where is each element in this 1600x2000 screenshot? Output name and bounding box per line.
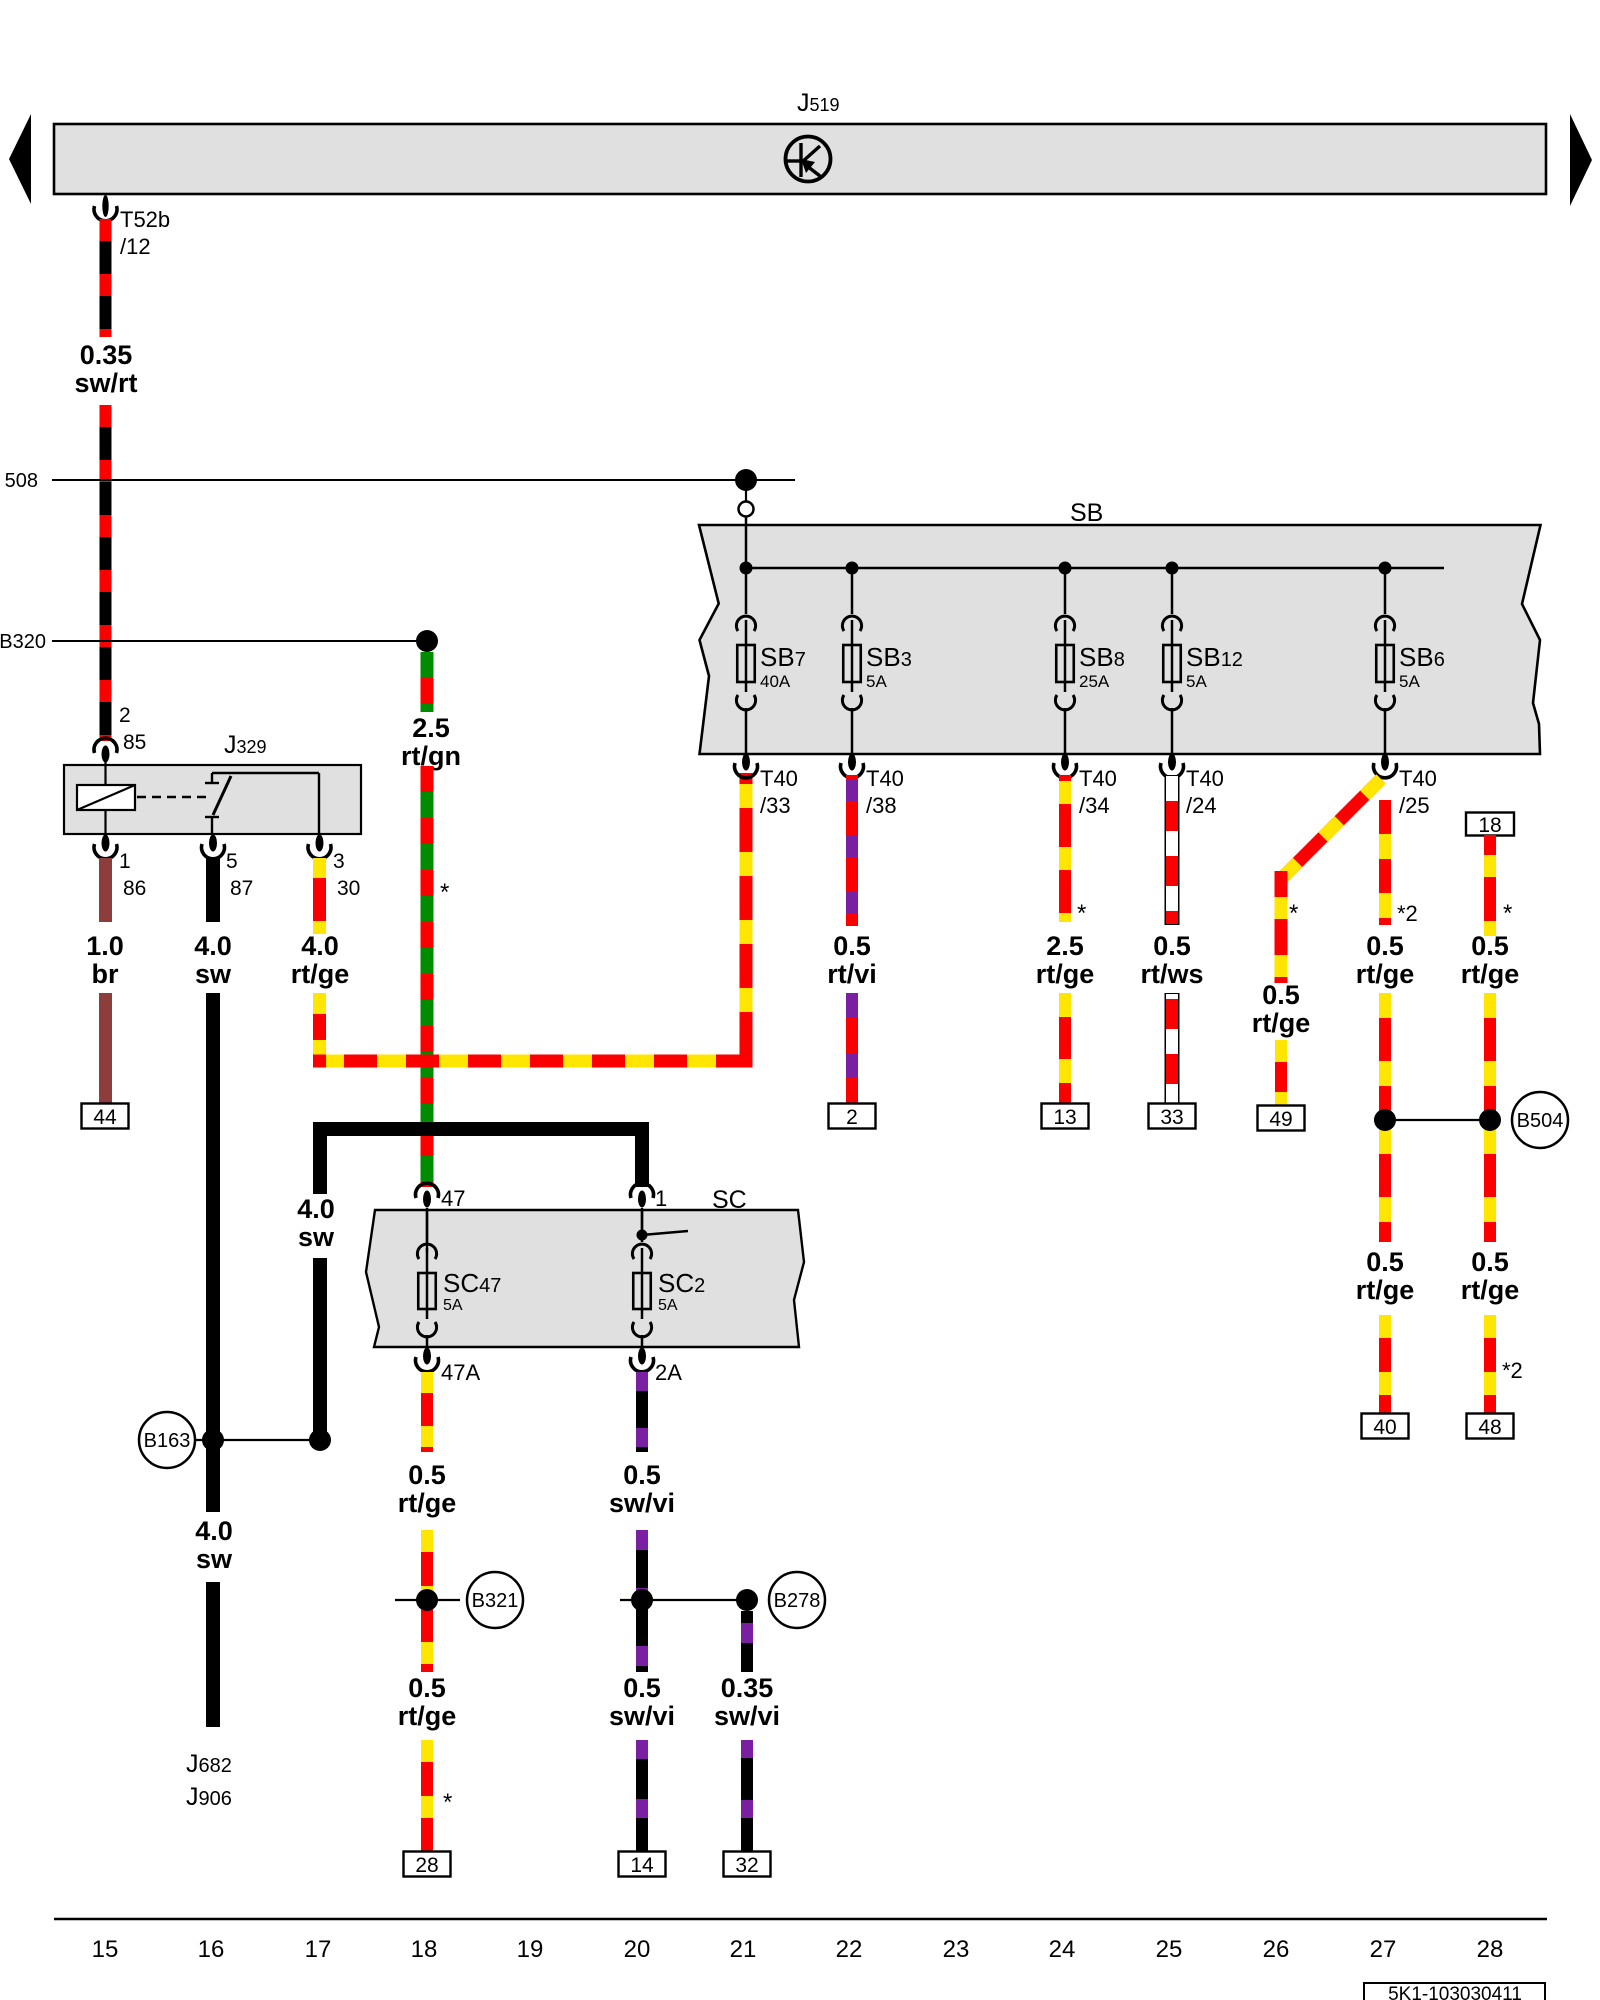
- svg-text:/34: /34: [1079, 793, 1110, 818]
- junction dot B320 to rt/gn wire: [416, 630, 438, 652]
- wire 2.5 rt/ge T40/34 upper: [1059, 775, 1071, 922]
- wire rt/ge corner at T40/33 column: [740, 1055, 753, 1068]
- svg-text:85: 85: [123, 731, 146, 754]
- wire 0.5 rt/vi upper segment: [846, 775, 858, 926]
- wire rt/ge horizontal run to T40/33: [313, 1055, 753, 1068]
- svg-text:SB: SB: [1070, 499, 1103, 527]
- svg-text:508: 508: [5, 470, 38, 492]
- connector SC pin 47: [416, 1183, 439, 1198]
- SB feed link from 508 node: [745, 480, 747, 501]
- fuse SB12 5A: [1171, 568, 1174, 614]
- svg-text:*: *: [1503, 900, 1512, 927]
- svg-text:5: 5: [226, 850, 238, 873]
- wire 4.0 rt/ge from pin 30 upper: [313, 858, 326, 934]
- SB bus junction dot x=746: [740, 562, 753, 575]
- svg-text:*: *: [1289, 900, 1298, 927]
- svg-text:0.35: 0.35: [721, 1673, 774, 1703]
- svg-text:0.35: 0.35: [80, 340, 133, 370]
- fuse SC2 5A: [641, 1209, 644, 1242]
- svg-text:2.5: 2.5: [1046, 931, 1084, 961]
- connector SC pin 47A: [423, 1348, 431, 1365]
- svg-text:T52b: T52b: [120, 207, 170, 232]
- wire rt/ge corner at relay column: [313, 1055, 326, 1068]
- svg-text:B163: B163: [144, 1430, 191, 1452]
- svg-text:sw/vi: sw/vi: [609, 1701, 675, 1731]
- wire 0.5 rt/ge to box 28: [421, 1740, 433, 1852]
- junction dot B321: [416, 1589, 438, 1611]
- SB bus junction dot x=1065: [1059, 562, 1072, 575]
- terminal box 2: [829, 1104, 876, 1129]
- SB internal bus line: [746, 567, 1444, 570]
- wire 0.5 rt/ge diagonal from T40/25: [1281, 779, 1381, 879]
- relay coil: [77, 785, 135, 810]
- svg-text:25A: 25A: [1079, 672, 1110, 691]
- wire 2.5 rt/ge T40/34 lower: [1059, 993, 1071, 1104]
- svg-text:J329: J329: [224, 731, 267, 759]
- svg-text:rt/ge: rt/ge: [1356, 1275, 1415, 1305]
- svg-text:47A: 47A: [441, 1360, 480, 1385]
- wire 0.5 rt/ge col27 to box 40: [1379, 1315, 1391, 1414]
- svg-text:*: *: [440, 879, 449, 906]
- svg-text:49: 49: [1269, 1108, 1292, 1131]
- svg-text:4.0: 4.0: [301, 931, 339, 961]
- terminal box 14: [619, 1852, 666, 1877]
- svg-text:0.5: 0.5: [408, 1673, 446, 1703]
- svg-text:15: 15: [92, 1936, 119, 1963]
- svg-text:sw/rt: sw/rt: [74, 368, 137, 398]
- relay switch contact: [211, 773, 213, 783]
- junction dot B278 right: [736, 1589, 758, 1611]
- junction dot B278 left: [631, 1589, 653, 1611]
- svg-text:*2: *2: [1397, 901, 1418, 926]
- svg-text:rt/ge: rt/ge: [1461, 1275, 1520, 1305]
- svg-text:2: 2: [846, 1106, 858, 1129]
- svg-text:br: br: [92, 959, 119, 989]
- svg-text:/12: /12: [120, 234, 151, 259]
- fuse SB3 5A: [851, 568, 854, 614]
- connector SC pin 2A: [638, 1348, 646, 1365]
- svg-text:48: 48: [1478, 1416, 1501, 1439]
- svg-text:B278: B278: [774, 1590, 821, 1612]
- svg-text:18: 18: [411, 1936, 438, 1963]
- control unit J519 bus bar: [54, 124, 1546, 194]
- SB feed link into box: [745, 517, 748, 569]
- svg-text:40A: 40A: [760, 672, 791, 691]
- svg-text:0.5: 0.5: [1366, 931, 1404, 961]
- SB bus junction dot x=1385: [1379, 562, 1392, 575]
- wire 1.0 br lower segment: [99, 993, 112, 1104]
- svg-text:sw: sw: [298, 1222, 335, 1252]
- svg-text:/25: /25: [1399, 793, 1430, 818]
- fuse panel SC box: [366, 1210, 804, 1347]
- wire 0.5 sw/vi from 2A: [636, 1372, 648, 1452]
- node B163 link line: [196, 1439, 320, 1441]
- net line 508: [52, 479, 795, 481]
- svg-text:2A: 2A: [655, 1360, 682, 1385]
- terminal box 33: [1149, 1104, 1196, 1129]
- relay J329 box: [64, 765, 361, 834]
- svg-text:rt/ge: rt/ge: [1461, 959, 1520, 989]
- svg-text:sw: sw: [196, 1544, 233, 1574]
- bus node symbol in J519: [786, 137, 831, 182]
- wire 1.0 br upper segment: [99, 858, 112, 922]
- svg-text:rt/ge: rt/ge: [1036, 959, 1095, 989]
- svg-text:44: 44: [93, 1106, 117, 1129]
- relay pin 1/86 connector: [102, 835, 110, 852]
- svg-text:0.5: 0.5: [1262, 980, 1300, 1010]
- wire 4.0 sw upper segment (pin 87): [206, 858, 220, 922]
- diagram part number box: [1364, 1983, 1545, 2000]
- wire 0.5 rt/ws lower segment: [1165, 993, 1180, 1104]
- svg-text:B320: B320: [0, 631, 46, 653]
- svg-text:/33: /33: [760, 793, 791, 818]
- relay actuation dashed line: [137, 796, 206, 798]
- svg-text:/24: /24: [1186, 793, 1217, 818]
- node B278 link line: [620, 1599, 747, 1601]
- svg-text:rt/ge: rt/ge: [398, 1701, 457, 1731]
- terminal box 49: [1258, 1106, 1305, 1131]
- svg-text:33: 33: [1160, 1106, 1183, 1129]
- svg-text:26: 26: [1263, 1936, 1290, 1963]
- junction dot B504 right: [1479, 1109, 1501, 1131]
- svg-text:T40: T40: [1399, 766, 1437, 791]
- connector T40/34 under SB: [1061, 754, 1069, 771]
- svg-text:1.0: 1.0: [86, 931, 124, 961]
- node circle B163: [139, 1412, 195, 1468]
- SC2 switch dot: [637, 1230, 648, 1241]
- svg-text:*: *: [1077, 900, 1086, 927]
- fuse panel SB box: [699, 525, 1541, 754]
- svg-text:28: 28: [1477, 1936, 1504, 1963]
- SC pin 1 lead: [641, 1208, 643, 1235]
- svg-text:5A: 5A: [866, 672, 887, 691]
- SB feed plug open circle: [739, 502, 754, 517]
- svg-text:22: 22: [836, 1936, 863, 1963]
- wire 0.5 rt/ge below diagonal: [1275, 871, 1288, 983]
- svg-text:5A: 5A: [443, 1297, 463, 1314]
- wire 0.5 rt/ws upper segment: [1165, 775, 1180, 925]
- svg-text:0.5: 0.5: [1471, 931, 1509, 961]
- svg-text:T40: T40: [1186, 766, 1224, 791]
- relay pin 2/85 connector: [94, 738, 117, 753]
- svg-text:T40: T40: [866, 766, 904, 791]
- svg-text:rt/vi: rt/vi: [827, 959, 877, 989]
- wire 4.0 sw elbow left vertical lower: [313, 1258, 327, 1447]
- svg-text:/38: /38: [866, 793, 897, 818]
- svg-text:24: 24: [1049, 1936, 1076, 1963]
- connector T40/38 under SB: [848, 754, 856, 771]
- wire 0.35 sw/vi to box 32: [741, 1740, 753, 1852]
- connector T40/25 under SB: [1381, 754, 1389, 771]
- svg-text:*: *: [443, 1789, 452, 1816]
- wire 0.5 rt/ge col28 upper: [1484, 835, 1496, 936]
- svg-text:87: 87: [230, 877, 253, 900]
- svg-text:28: 28: [415, 1854, 438, 1877]
- wire 0.5 rt/ge col27 through B504: [1379, 993, 1391, 1242]
- svg-text:40: 40: [1373, 1416, 1396, 1439]
- wire 0.5 rt/ge to box 49: [1275, 1040, 1287, 1106]
- wire 0.5 rt/ge col28 to box 48: [1484, 1315, 1496, 1414]
- relay coil feed line to pin 1: [104, 810, 106, 834]
- connector SC pin 1: [631, 1183, 654, 1198]
- svg-text:25: 25: [1156, 1936, 1183, 1963]
- wire 0.35 sw/rt upper segment: [100, 219, 112, 337]
- svg-text:5A: 5A: [1399, 672, 1420, 691]
- terminal box 13: [1042, 1104, 1089, 1129]
- terminal box 48: [1467, 1414, 1514, 1439]
- node circle B504: [1512, 1092, 1568, 1148]
- connector T52b/12 at J519: [102, 195, 108, 217]
- svg-text:rt/ge: rt/ge: [398, 1488, 457, 1518]
- relay pin 5/87 connector: [209, 835, 217, 852]
- wire 0.5 sw/vi to box 14: [636, 1740, 648, 1852]
- svg-text:0.5: 0.5: [1471, 1247, 1509, 1277]
- svg-text:B321: B321: [472, 1590, 519, 1612]
- svg-text:B504: B504: [1517, 1110, 1564, 1132]
- svg-text:4.0: 4.0: [194, 931, 232, 961]
- svg-text:0.5: 0.5: [408, 1460, 446, 1490]
- relay pin 3/30 connector: [316, 835, 324, 852]
- wire 4.0 sw elbow horizontal: [313, 1122, 642, 1136]
- junction dot on 508 at SB feed: [735, 469, 757, 491]
- svg-text:sw/vi: sw/vi: [609, 1488, 675, 1518]
- svg-text:1: 1: [655, 1186, 667, 1211]
- wire 0.5 sw/vi mid segment: [636, 1530, 648, 1672]
- svg-text:T40: T40: [1079, 766, 1117, 791]
- wire 2.5 rt/ge rising to T40/33: [740, 773, 753, 1061]
- svg-text:23: 23: [943, 1936, 970, 1963]
- svg-text:32: 32: [735, 1854, 758, 1877]
- svg-text:rt/ge: rt/ge: [1252, 1008, 1311, 1038]
- fuse SB8 25A: [1064, 568, 1067, 614]
- svg-text:2: 2: [119, 704, 131, 727]
- SC2 switch line: [642, 1231, 688, 1235]
- wire 2.5 rt/gn long segment to SC fuse 47: [421, 766, 434, 1187]
- svg-text:86: 86: [123, 877, 146, 900]
- svg-text:5A: 5A: [1186, 672, 1207, 691]
- svg-text:18: 18: [1478, 814, 1501, 837]
- svg-text:rt/ge: rt/ge: [1356, 959, 1415, 989]
- svg-text:1: 1: [119, 850, 131, 873]
- node B504 link line: [1385, 1119, 1490, 1121]
- svg-text:27: 27: [1370, 1936, 1397, 1963]
- node B321 link line: [395, 1599, 460, 1601]
- SB bus junction dot x=852: [846, 562, 859, 575]
- wire 0.35 sw/rt lower segment: [100, 405, 112, 741]
- svg-text:T40: T40: [760, 766, 798, 791]
- svg-text:J906: J906: [186, 1783, 232, 1811]
- svg-text:5K1-103030411: 5K1-103030411: [1388, 1984, 1522, 2000]
- wire 0.5 rt/ge col28 through B504: [1484, 993, 1496, 1242]
- node circle B321: [467, 1572, 523, 1628]
- svg-text:16: 16: [198, 1936, 225, 1963]
- terminal box 32: [724, 1852, 771, 1877]
- bus continuation arrow right: [1570, 114, 1592, 206]
- svg-text:0.5: 0.5: [623, 1460, 661, 1490]
- wire 4.0 sw elbow left vertical: [313, 1122, 327, 1194]
- svg-text:0.5: 0.5: [1153, 931, 1191, 961]
- svg-text:*2: *2: [1502, 1358, 1523, 1383]
- svg-text:21: 21: [730, 1936, 757, 1963]
- svg-text:13: 13: [1053, 1106, 1076, 1129]
- svg-text:J682: J682: [186, 1750, 232, 1778]
- svg-text:30: 30: [337, 877, 360, 900]
- wire 0.35 sw/vi from B278: [741, 1611, 753, 1672]
- junction dot B504 left: [1374, 1109, 1396, 1131]
- svg-text:0.5: 0.5: [833, 931, 871, 961]
- svg-text:17: 17: [305, 1936, 332, 1963]
- svg-text:rt/ws: rt/ws: [1140, 959, 1203, 989]
- SB bus junction dot x=1172: [1166, 562, 1179, 575]
- svg-text:sw/vi: sw/vi: [714, 1701, 780, 1731]
- wire 4.0 sw long segment: [206, 993, 220, 1512]
- svg-text:0.5: 0.5: [623, 1673, 661, 1703]
- wire 4.0 rt/ge to corner: [313, 993, 326, 1061]
- terminal box 18: [1466, 813, 1514, 836]
- wire 4.0 sw bottom segment: [206, 1582, 220, 1727]
- bus continuation arrow left: [9, 114, 31, 204]
- svg-text:20: 20: [624, 1936, 651, 1963]
- connector T40/24 under SB: [1168, 754, 1176, 771]
- wire 2.5 rt/gn upper segment: [421, 652, 434, 712]
- wire 4.0 sw elbow right vertical: [635, 1122, 649, 1187]
- svg-text:sw: sw: [195, 959, 232, 989]
- svg-text:4.0: 4.0: [195, 1516, 233, 1546]
- svg-text:19: 19: [517, 1936, 544, 1963]
- SC pin 47 lead: [426, 1208, 428, 1252]
- fuse SB6 5A: [1384, 568, 1387, 614]
- junction dot B163 left: [202, 1429, 224, 1451]
- wire 0.5 rt/ge from 47A: [421, 1372, 433, 1452]
- terminal box 44: [82, 1104, 129, 1129]
- terminal box 40: [1362, 1414, 1409, 1439]
- svg-text:J519: J519: [797, 89, 840, 117]
- wire 0.5 rt/ge T40/25 vertical upper: [1379, 800, 1391, 925]
- svg-text:3: 3: [333, 850, 345, 873]
- svg-text:4.0: 4.0: [297, 1194, 335, 1224]
- junction dot B163 right: [309, 1429, 331, 1451]
- net line B320: [52, 640, 416, 642]
- node circle B278: [769, 1572, 825, 1628]
- svg-text:rt/ge: rt/ge: [291, 959, 350, 989]
- terminal box 28: [404, 1852, 451, 1877]
- wire 0.5 rt/ge mid segment: [421, 1530, 433, 1672]
- svg-text:14: 14: [630, 1854, 654, 1877]
- svg-text:5A: 5A: [658, 1297, 678, 1314]
- connector T40/33 under SB: [742, 754, 750, 771]
- fuse SB7 40A: [745, 568, 748, 614]
- svg-text:47: 47: [441, 1186, 465, 1211]
- fuse SC47 5A: [426, 1209, 429, 1242]
- wire 0.5 rt/vi lower segment: [846, 993, 858, 1104]
- svg-text:0.5: 0.5: [1366, 1247, 1404, 1277]
- svg-text:2.5: 2.5: [412, 713, 450, 743]
- bottom grid line: [54, 1918, 1547, 1921]
